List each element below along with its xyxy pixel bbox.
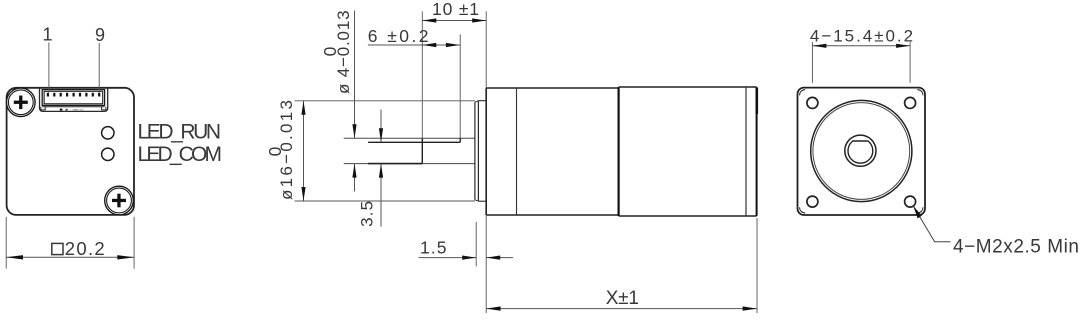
mounting hole bottom-left [807,196,818,207]
svg-text:LED_COM: LED_COM [138,143,223,166]
flat end edge / extension [459,34,461,142]
label LED_RUN [138,120,222,143]
dimension 3.5 arrows [379,110,383,227]
dimension 4-15.4±0.2 [810,27,913,83]
screw top-left [6,88,35,117]
boss top edge [478,101,486,202]
LED RUN indicator [102,127,114,139]
svg-text:1: 1 [42,25,52,45]
mounting hole top-right [905,97,916,108]
svg-text:20.2: 20.2 [65,238,105,259]
LED COM indicator [102,148,114,160]
mounting hole top-left [807,97,818,108]
mounting hole bottom-right [905,196,916,207]
label LED_COM [138,143,223,166]
svg-text:LED_RUN: LED_RUN [138,120,222,143]
dimension ø16 tolerance label [265,100,296,200]
gearbox body front face [485,88,487,215]
gearbox/motor joint [617,87,619,216]
shaft D-hole [848,141,873,163]
shaft hub ring [845,135,876,166]
shaft bottom silhouette line [344,163,475,165]
flange square [798,88,926,215]
pin 9 label and leader [95,25,105,93]
dimension 6 ±0.2 [368,26,460,47]
connector J1 pins 1..9 [47,93,100,97]
dimension 1.5 [419,215,514,313]
dimension 10 ±1 [422,0,486,88]
connector J1 socket walls [42,90,104,106]
dimension ø4 arrows [352,11,356,192]
svg-text:10 ±1: 10 ±1 [432,0,479,19]
pin 1 label and leader [42,25,52,93]
gearbox body outline [486,88,618,215]
motor body outline [619,87,757,216]
svg-text:9: 9 [95,25,105,45]
svg-text:0: 0 [320,46,340,56]
shaft tip edge / extension [421,11,423,163]
dimension square 20.2 [6,217,134,269]
connector J1 housing [40,88,108,111]
svg-text:0: 0 [265,146,285,156]
dimension X±1 [486,218,757,313]
svg-text:3.5: 3.5 [358,201,377,227]
screw bottom-right [105,186,134,215]
connector J1 bottom lip [41,107,106,111]
svg-text:4−M2x2.5 Min: 4−M2x2.5 Min [953,236,1079,257]
dimension ø4 tolerance label [320,10,353,94]
dimension ø16 [295,101,476,201]
pilot boss front face (double line with chamfer) [475,101,479,202]
shaft flat line [368,141,460,143]
dimension 3.5 label [358,201,377,227]
shaft top silhouette line [344,137,475,139]
encoder body outline [7,88,134,215]
svg-text:X±1: X±1 [606,288,639,309]
leader 4-M2x2.5 Min [913,206,1079,257]
pilot circle ø16 (double) [811,100,912,201]
svg-text:1.5: 1.5 [420,237,447,257]
